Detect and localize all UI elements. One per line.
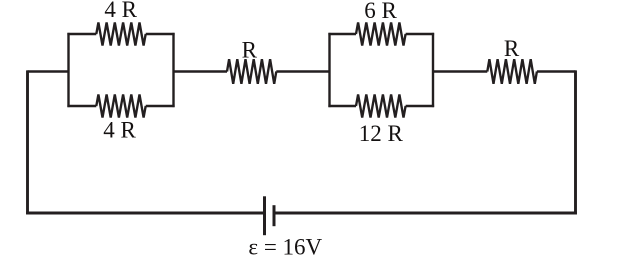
right parallel block frame: top edge segments	[328, 33, 356, 35]
right parallel block frame: left edge	[328, 33, 330, 107]
resistor 4R bottom branch	[96, 95, 145, 118]
svg-text:ε = 16V: ε = 16V	[248, 235, 322, 260]
right parallel block frame: right edge	[432, 33, 434, 107]
wire: right vertical wire	[574, 70, 577, 214]
left parallel block frame: top edge segments	[67, 33, 96, 35]
resistor 6R top branch	[356, 23, 406, 46]
svg-text:R: R	[504, 36, 520, 61]
resistor R right	[487, 59, 537, 84]
svg-text:12 R: 12 R	[359, 121, 404, 146]
resistor 12R bottom branch	[356, 95, 406, 118]
left parallel block frame: left edge	[67, 33, 69, 107]
svg-text:R: R	[242, 38, 258, 63]
wire: right block to right R	[433, 70, 487, 72]
wire: right R to right vertical wire	[537, 70, 576, 72]
svg-text:4 R: 4 R	[104, 0, 137, 22]
resistor R middle	[227, 59, 276, 84]
battery cell long plate (positive)	[263, 196, 266, 235]
wire: bottom rail left segment	[26, 212, 263, 215]
left parallel block frame: bottom edge segments	[67, 105, 96, 107]
right parallel block frame: bottom edge segments	[328, 105, 356, 107]
wire: left block to middle R	[174, 70, 228, 72]
wire: left wire to left block	[28, 70, 69, 72]
wire: left vertical wire	[26, 70, 29, 214]
resistor 4R top branch	[96, 23, 145, 46]
svg-text:6 R: 6 R	[364, 0, 397, 23]
svg-text:4 R: 4 R	[103, 117, 136, 142]
left parallel block frame: right edge	[172, 33, 174, 107]
wire: bottom rail right segment	[276, 212, 577, 215]
battery cell short plate (negative)	[273, 205, 276, 226]
wire: middle R to right block	[276, 70, 329, 72]
